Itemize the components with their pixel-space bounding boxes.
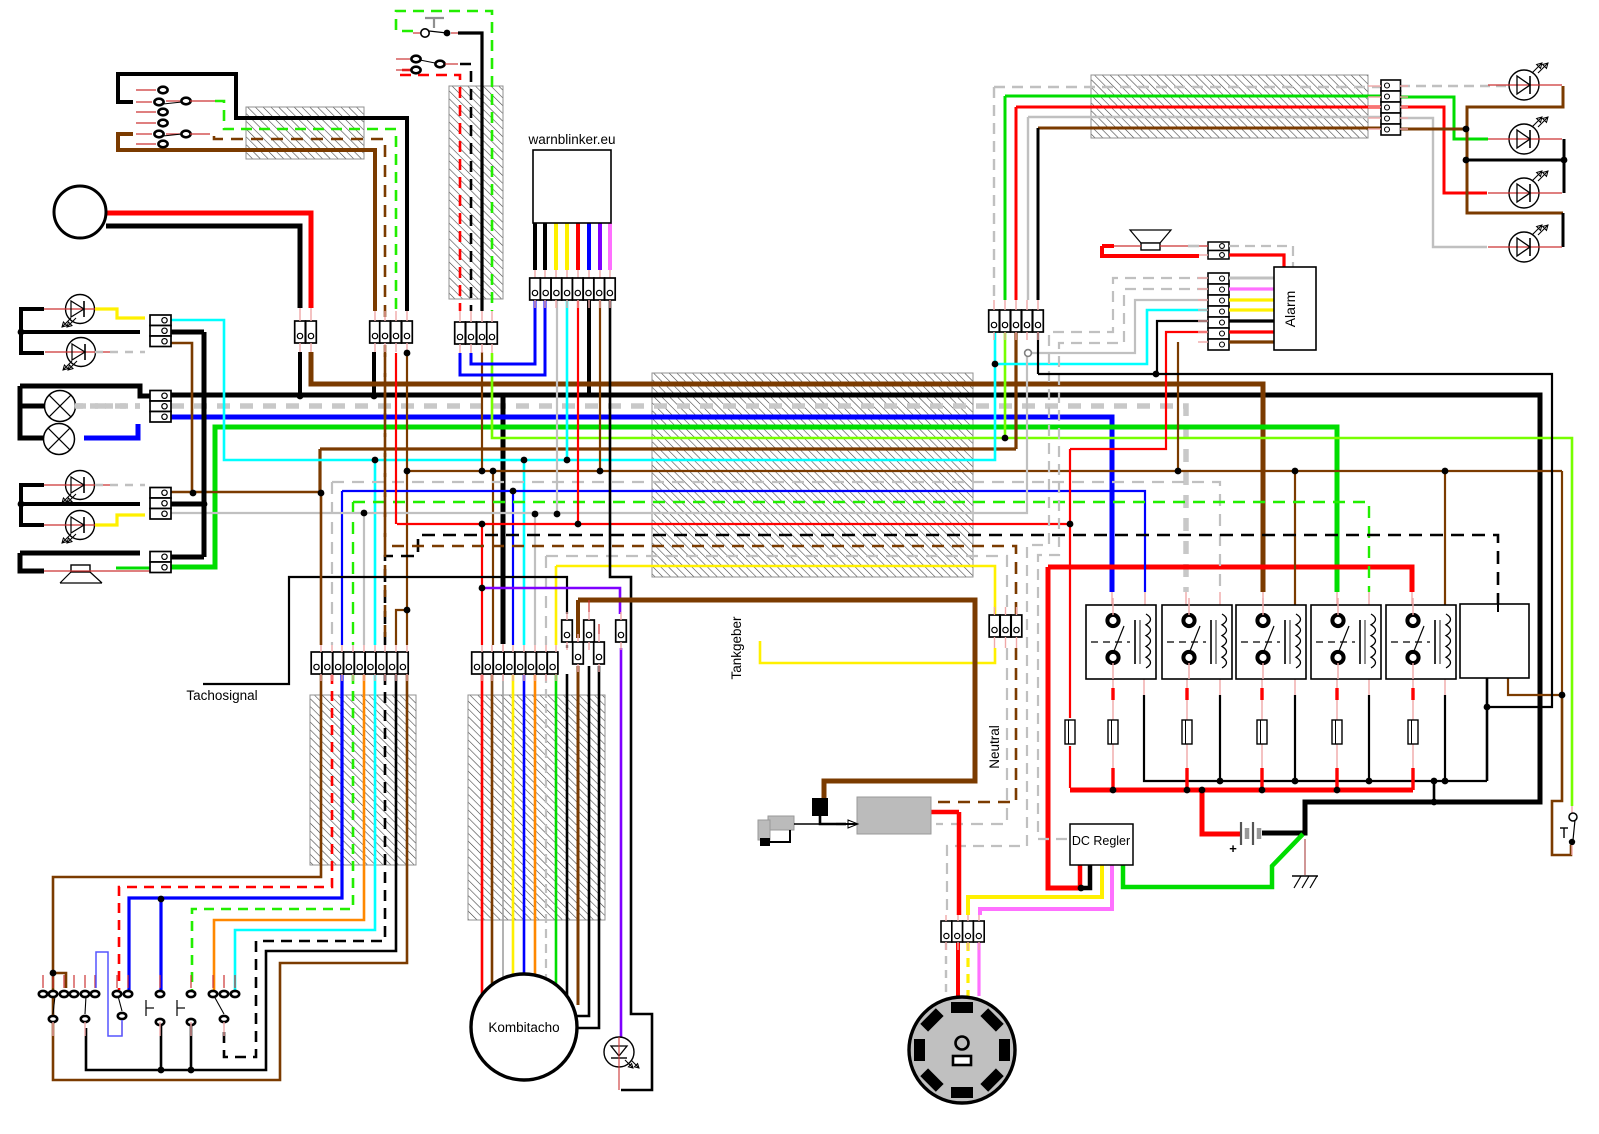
svg-text:warnblinker.eu: warnblinker.eu	[527, 132, 615, 147]
svg-text:Kombitacho: Kombitacho	[488, 1020, 559, 1035]
svg-text:Neutral: Neutral	[987, 725, 1002, 769]
svg-text:Tachosignal: Tachosignal	[186, 688, 257, 703]
svg-text:DC Regler: DC Regler	[1072, 834, 1130, 848]
svg-text:Tankgeber: Tankgeber	[729, 616, 744, 680]
svg-text:Alarm: Alarm	[1282, 291, 1298, 328]
svg-text:+: +	[1229, 841, 1237, 856]
